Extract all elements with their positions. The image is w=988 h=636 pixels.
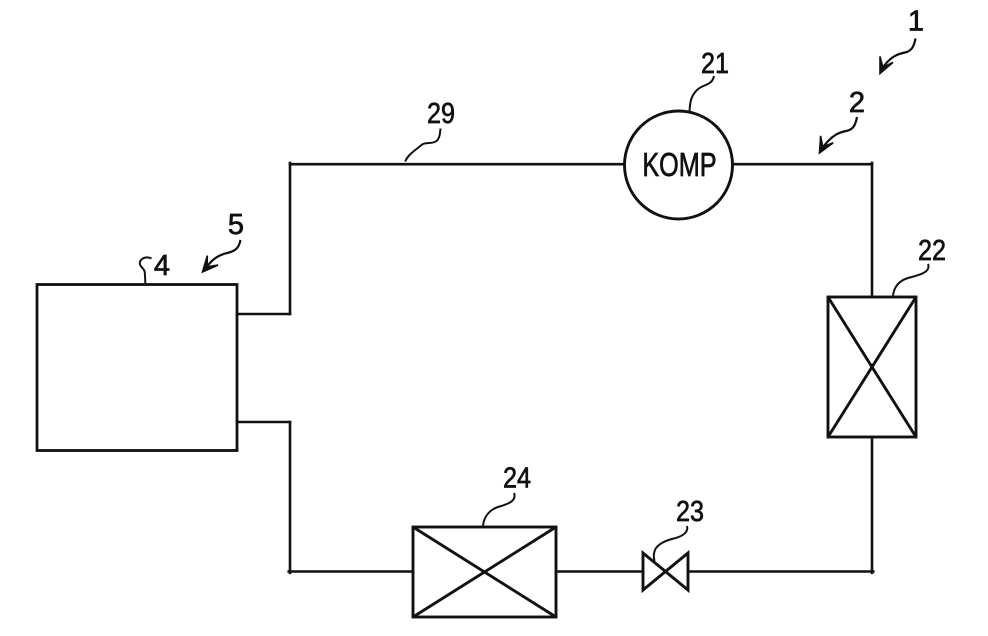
arrow for 1 bbox=[884, 39, 916, 67]
wire right vertical upper bbox=[871, 163, 874, 297]
leader for 24 bbox=[483, 493, 515, 526]
arrow for 5 bbox=[208, 240, 241, 266]
leader for 4 bbox=[140, 257, 152, 283]
wire stub box top bbox=[237, 313, 290, 316]
leader for 21 bbox=[690, 76, 715, 112]
svg-text:21: 21 bbox=[701, 48, 729, 80]
box 4 (heated space) bbox=[37, 285, 237, 451]
leader for 23 bbox=[654, 526, 688, 561]
svg-text:24: 24 bbox=[503, 463, 531, 495]
heat exchanger 24 (evaporator) bbox=[413, 527, 556, 617]
wire top-right horizontal bbox=[733, 163, 873, 166]
svg-text:KOMP: KOMP bbox=[642, 147, 716, 184]
wire stub box bottom bbox=[237, 421, 290, 424]
leader for 29 bbox=[405, 129, 440, 162]
expansion valve 23 bbox=[643, 553, 688, 590]
svg-text:23: 23 bbox=[676, 496, 704, 528]
wire bottom middle segment bbox=[556, 570, 643, 573]
heat exchanger 22 (condenser) bbox=[828, 297, 916, 437]
arrow for 2 bbox=[824, 117, 858, 147]
svg-text:5: 5 bbox=[228, 209, 244, 241]
svg-text:2: 2 bbox=[849, 87, 865, 119]
wire right vertical lower bbox=[871, 437, 874, 573]
wire left vertical upper bbox=[289, 163, 292, 314]
svg-text:1: 1 bbox=[908, 6, 924, 38]
wire top-left horizontal (line 29) bbox=[290, 163, 625, 166]
wire bottom left segment bbox=[289, 570, 413, 573]
leader for 22 bbox=[893, 264, 928, 296]
wire bottom right segment bbox=[688, 570, 873, 573]
svg-text:22: 22 bbox=[918, 235, 946, 267]
compressor U21 circle KOMP bbox=[625, 111, 733, 219]
wire left vertical lower bbox=[289, 422, 292, 573]
svg-text:4: 4 bbox=[154, 250, 170, 282]
svg-text:29: 29 bbox=[427, 98, 455, 130]
